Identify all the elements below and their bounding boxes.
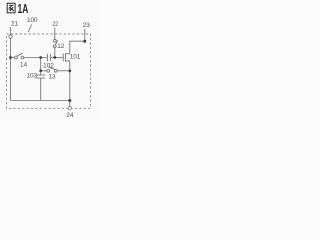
svg-text:14: 14 — [20, 61, 28, 68]
svg-text:22: 22 — [53, 21, 59, 28]
svg-text:21: 21 — [11, 20, 19, 27]
svg-text:103: 103 — [26, 73, 37, 80]
svg-text:12: 12 — [57, 43, 65, 50]
svg-text:13: 13 — [48, 74, 56, 81]
svg-text:23: 23 — [83, 22, 91, 29]
svg-text:1A: 1A — [18, 1, 29, 16]
svg-text:100: 100 — [27, 17, 38, 24]
svg-text:101: 101 — [70, 54, 81, 61]
svg-text:24: 24 — [66, 112, 74, 119]
